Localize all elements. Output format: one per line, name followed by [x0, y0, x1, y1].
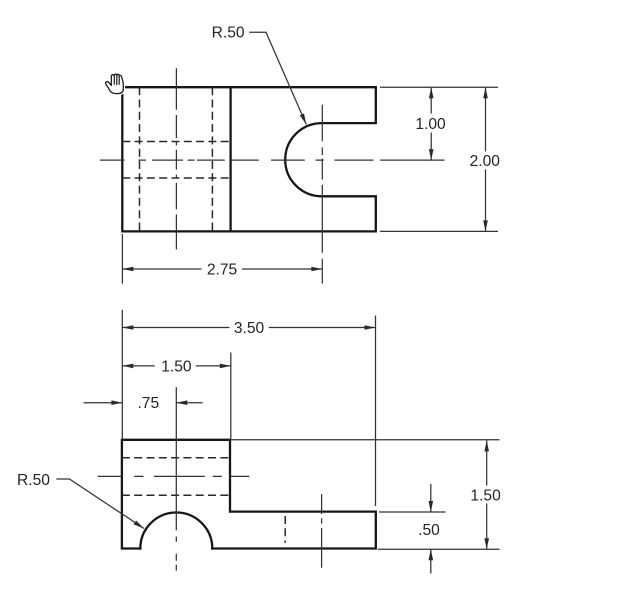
- hidden line: slot arc extent (front view): [284, 516, 286, 543]
- svg-text:1.50: 1.50: [161, 358, 192, 375]
- hidden line: hole top (front view): [122, 457, 230, 459]
- extension line for 2.75 left (top view): [121, 234, 123, 284]
- hand cursor: [106, 74, 124, 93]
- dimension 1.00 line: [430, 87, 432, 113]
- hidden line: notch silhouette right (top view): [211, 87, 213, 231]
- dimension 2.00 line: [485, 87, 487, 151]
- svg-text:1.00: 1.00: [415, 116, 446, 133]
- notch arc (front view): [140, 513, 212, 549]
- svg-text:2.75: 2.75: [207, 262, 238, 279]
- R.50 leader (top view): [249, 32, 306, 124]
- R.50 leader (front view): [56, 479, 144, 529]
- dimension 1.50 line (front view width): [122, 365, 154, 367]
- center line vertical through slot (top view, also 2.75 extension): [321, 105, 323, 284]
- dimension 3.50 line: [122, 327, 229, 329]
- svg-text:.50: .50: [418, 522, 440, 539]
- svg-text:R.50: R.50: [17, 472, 50, 489]
- extension line left (front view dims): [121, 310, 123, 440]
- hidden line: hole top (top view): [122, 141, 230, 143]
- dimension 2.75 line: [122, 268, 201, 270]
- outline of top view: rect with U-slot from right: [122, 87, 375, 231]
- extension line bottom right (top view): [380, 230, 498, 232]
- center line horizontal (top view, also 1.00 extension): [100, 159, 445, 161]
- extension line bottom right (front view): [378, 548, 500, 550]
- step edge line (top view): [229, 87, 231, 231]
- center line horizontal hole axis (front view): [98, 475, 250, 477]
- svg-text:R.50: R.50: [212, 25, 245, 42]
- extension line step (front view .50 dim): [379, 511, 446, 513]
- extension line right x=375.5 (front view 3.50): [375, 316, 377, 506]
- dimension 1.50 line (front view height): [486, 440, 488, 485]
- svg-text:2.00: 2.00: [470, 153, 501, 170]
- extension line top right (front view, 1.50 right dim): [231, 439, 500, 441]
- center line vertical notch axis (front view, also .75 extension): [175, 387, 177, 570]
- center line vertical slot axis (front view): [321, 494, 323, 568]
- dimension .75 arrows (outside): [84, 402, 123, 404]
- svg-text:3.50: 3.50: [234, 320, 265, 337]
- svg-text:1.50: 1.50: [470, 487, 501, 504]
- hidden line: hole bottom (front view): [122, 494, 230, 496]
- svg-text:.75: .75: [137, 395, 159, 412]
- extension line for 1.50 right (front view): [230, 353, 232, 440]
- outline of front view: step block with semicircular notch: [122, 440, 376, 549]
- hidden line: notch silhouette left (top view): [139, 87, 141, 231]
- hidden line: hole bottom (top view): [122, 177, 230, 179]
- center line vertical through notch (top view): [175, 68, 177, 249]
- dimension .50 arrows (outside): [430, 484, 432, 512]
- extension line top right (top view): [380, 86, 498, 88]
